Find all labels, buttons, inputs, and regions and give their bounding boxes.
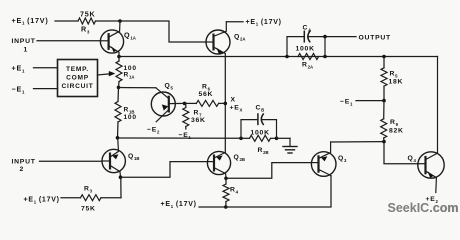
- wire R6 to X line: [219, 102, 226, 104]
- svg-text:+E1 (17V): +E1 (17V): [24, 197, 60, 205]
- transistor Q2A: [206, 22, 230, 57]
- wire +E1 to R3 top: [55, 20, 78, 22]
- capacitor CB: [241, 114, 277, 138]
- junction Q5 base/R6/R7: [183, 102, 187, 106]
- svg-text:−E1: −E1: [179, 132, 192, 140]
- wire node to R6: [185, 102, 197, 104]
- svg-text:+E1 (17V): +E1 (17V): [246, 19, 282, 27]
- wire node to ground: [277, 137, 291, 139]
- wire node to Q4 base (stepped): [384, 142, 419, 164]
- svg-text:Q4: Q4: [408, 155, 417, 163]
- resistor R3 (bottom) 75K: [81, 195, 102, 201]
- wire -E1 to box: [34, 88, 58, 90]
- transistor Q4: [418, 57, 444, 193]
- svg-text:Q2A: Q2A: [234, 34, 246, 42]
- wire to R2B: [241, 137, 250, 139]
- junction R5/R9/-E1: [382, 99, 386, 103]
- wire Q1B emitter to Q2B base (stepped): [121, 162, 208, 178]
- wire Q1B emitter down to R3 bottom: [120, 177, 122, 198]
- wire INPUT2 to Q1B base: [40, 160, 103, 162]
- svg-text:82K: 82K: [389, 128, 404, 135]
- junction R3/Q1A collector/step wire: [118, 19, 122, 23]
- junction R2B right / CB: [275, 137, 279, 141]
- temp comp circuit box: [58, 60, 98, 97]
- resistor R2A 100K: [298, 54, 319, 60]
- wire node to R1B: [117, 87, 120, 101]
- wire main rail (emitters to output corner): [119, 56, 438, 58]
- resistor R1A 100 (pot): [116, 61, 122, 82]
- transistor Q3: [311, 142, 336, 176]
- wire corner to R3 bottom: [101, 197, 121, 199]
- svg-text:56K: 56K: [199, 91, 214, 98]
- svg-text:100K: 100K: [296, 46, 315, 53]
- svg-text:com: com: [433, 201, 459, 215]
- svg-text:INPUT: INPUT: [12, 38, 36, 45]
- wire X line Q2A emitter to Q2B emitter: [224, 57, 226, 153]
- wire +E1 to box: [34, 67, 58, 69]
- transistor Q1A: [100, 21, 123, 57]
- svg-text:−E1: −E1: [12, 85, 26, 95]
- svg-text:CIRCUIT: CIRCUIT: [62, 83, 94, 90]
- wire R1A to node: [118, 82, 121, 88]
- junction R1B/Q1B collector/mid rail: [116, 136, 120, 140]
- svg-text:Q5: Q5: [165, 83, 174, 91]
- junction R1A/R1B/Q5 collector: [117, 86, 121, 90]
- svg-text:X: X: [231, 97, 236, 104]
- wire node to R7: [185, 103, 187, 107]
- svg-text:75K: 75K: [80, 10, 95, 19]
- svg-text:R2B: R2B: [258, 147, 269, 155]
- transistor Q2B: [207, 151, 230, 178]
- wire node to R9: [383, 101, 385, 119]
- junction R4 / bottom rail: [224, 205, 228, 209]
- wire -E1 stub: [356, 100, 384, 102]
- junction R2B left: [239, 137, 243, 141]
- svg-text:Q1A: Q1A: [124, 31, 136, 41]
- svg-text:R4: R4: [230, 187, 239, 195]
- wire R3 to node: [96, 20, 121, 22]
- resistor R4: [223, 184, 229, 202]
- wire rail to R5: [383, 57, 385, 68]
- svg-text:CB: CB: [256, 105, 265, 113]
- resistor R9 82K: [381, 119, 387, 138]
- svg-text:36K: 36K: [191, 117, 206, 124]
- junction Q1A emitter / R1A: [117, 55, 121, 59]
- svg-text:−E2: −E2: [147, 127, 160, 135]
- svg-text:COMP: COMP: [66, 75, 89, 82]
- capacitor CA: [287, 31, 325, 56]
- transistor Q1B: [102, 138, 125, 177]
- wire to OUTPUT: [325, 36, 356, 38]
- svg-text:R9: R9: [390, 119, 399, 127]
- svg-text:2: 2: [20, 166, 25, 173]
- junction main rail / R5: [382, 55, 386, 59]
- wire Q2B collector to Q3 base (stepped): [226, 163, 311, 179]
- wire to R1A: [118, 57, 120, 62]
- junction R2A left / CA: [285, 55, 289, 59]
- svg-text:CA: CA: [303, 25, 312, 33]
- svg-text:+E1 (17V): +E1 (17V): [12, 16, 49, 26]
- wire R3 bottom to +E1 label: [61, 197, 81, 199]
- resistor R5 18K: [381, 68, 387, 86]
- wire node to R4: [225, 178, 227, 184]
- svg-text:1: 1: [24, 47, 29, 54]
- svg-text:−E1: −E1: [340, 99, 353, 107]
- wire Q2A collector to +E1 stub: [226, 21, 243, 23]
- svg-text:18K: 18K: [389, 79, 404, 86]
- svg-text:100K: 100K: [251, 130, 270, 137]
- svg-text:TEMP.: TEMP.: [66, 66, 89, 73]
- wire R4 to bottom rail: [225, 202, 227, 208]
- svg-text:Q1B: Q1B: [128, 153, 140, 161]
- resistor R2B 100K: [250, 135, 271, 141]
- svg-text:+EX: +EX: [230, 105, 243, 113]
- wire node to Q2A base (stepped): [120, 21, 206, 42]
- svg-text:R5: R5: [390, 71, 399, 79]
- svg-text:+E1: +E1: [12, 64, 26, 74]
- junction R9 / Q3 / Q4 base: [382, 140, 386, 144]
- resistor R1B 100: [115, 102, 121, 123]
- wire node to Q5 collector: [119, 87, 157, 89]
- svg-text:75K: 75K: [81, 206, 96, 213]
- resistor R6 56K: [196, 100, 218, 106]
- wire R7 to -E1 terminal: [185, 127, 187, 130]
- svg-text:+E1 (17V): +E1 (17V): [161, 201, 197, 209]
- resistor R3 (top) 75K: [78, 18, 96, 24]
- svg-text:Q2B: Q2B: [234, 154, 246, 162]
- wire bottom rail to Q3 emitter: [199, 176, 331, 207]
- junction R2A right / CA: [323, 55, 327, 59]
- junction Q1B emitter: [119, 175, 123, 179]
- resistor R7 36K: [183, 108, 189, 127]
- svg-text:R2A: R2A: [302, 62, 313, 70]
- junction Q2B collector / R4: [224, 177, 228, 181]
- svg-text:100: 100: [124, 114, 137, 121]
- svg-text:R1A: R1A: [124, 72, 135, 80]
- wire R2B to node: [271, 137, 277, 139]
- wire R5 to node: [383, 86, 385, 101]
- wiper arrow from temp comp box to pot R1A: [98, 71, 116, 76]
- svg-text:R3: R3: [81, 25, 90, 35]
- junction X line / R6: [224, 102, 228, 106]
- wire R9 to node: [383, 138, 385, 142]
- wire mid rail left part: [118, 137, 242, 139]
- svg-text:INPUT: INPUT: [12, 159, 36, 166]
- wire R1B to mid rail: [117, 122, 120, 138]
- wire INPUT1 to Q1A base: [37, 40, 101, 42]
- svg-text:OUTPUT: OUTPUT: [359, 35, 392, 42]
- wire Q3 collector to R9 node: [331, 141, 384, 143]
- junction CA / OUTPUT: [323, 35, 327, 39]
- svg-text:R3: R3: [84, 186, 93, 194]
- transistor Q5: [151, 88, 184, 122]
- ground: [283, 138, 297, 153]
- svg-text:Q3: Q3: [338, 155, 347, 163]
